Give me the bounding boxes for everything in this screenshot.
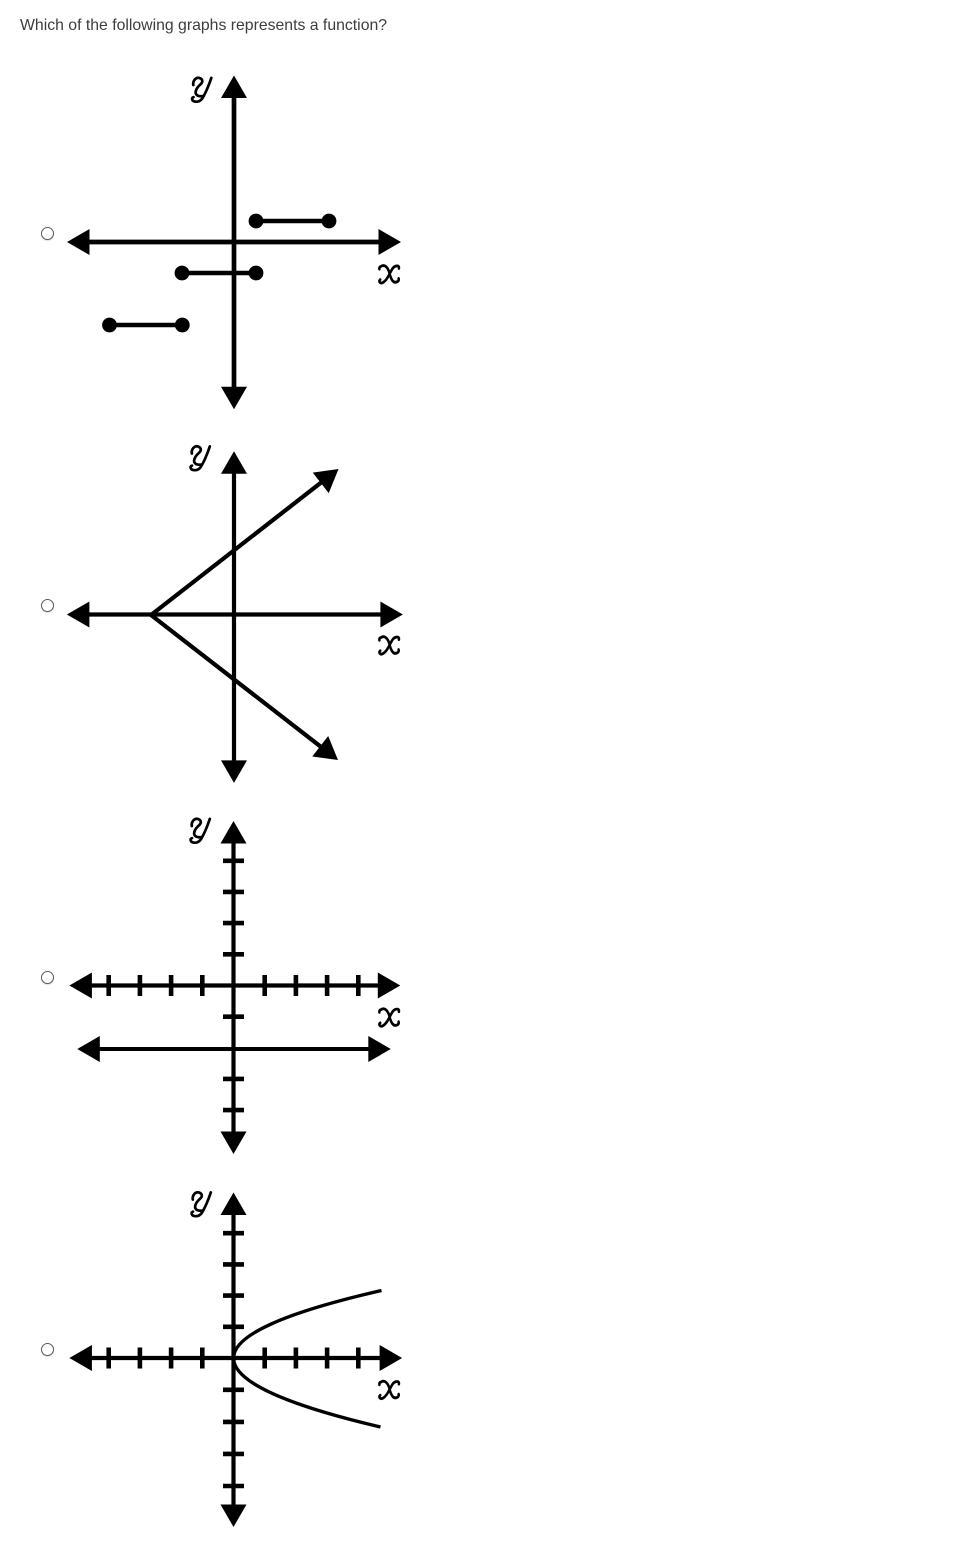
x-axis ticks g3: [109, 975, 359, 996]
step segment 2 (middle): [175, 266, 264, 281]
parabola upper branch: [234, 1291, 382, 1359]
step segment 1 (top right): [249, 214, 337, 229]
y-axis down arrowhead g3: [221, 1132, 247, 1155]
x-axis line g4: [89, 1356, 383, 1360]
y-axis up arrowhead g3: [221, 821, 247, 844]
x-axis right arrowhead g4: [380, 1345, 403, 1371]
question text: [20, 16, 387, 35]
y label g3: [191, 819, 210, 843]
x-axis left arrowhead g1: [67, 229, 90, 255]
x-axis left arrowhead g2: [67, 602, 90, 628]
V lower ray: [151, 615, 322, 748]
y-axis up arrowhead g2: [221, 451, 247, 474]
x label g1: [379, 266, 399, 283]
y-axis ticks g4: [223, 1233, 244, 1486]
radio option 3: [41, 971, 54, 984]
radio option 4: [41, 1343, 54, 1356]
x label g4: [379, 1381, 399, 1398]
x-axis right arrowhead g2: [380, 602, 403, 628]
x-axis line g1: [86, 240, 382, 245]
radio option 1: [41, 227, 54, 240]
y-axis up arrowhead g1: [221, 76, 247, 99]
x-axis right arrowhead g3: [378, 973, 401, 999]
y-axis line g4: [231, 1211, 235, 1508]
y-axis line g3: [231, 840, 235, 1135]
y-axis line g1: [232, 94, 237, 390]
x-axis ticks g4: [109, 1348, 359, 1369]
x-axis right arrowhead g1: [379, 229, 402, 255]
x-axis line g3: [89, 983, 381, 987]
y-axis down arrowhead g2: [221, 760, 247, 783]
y-axis down arrowhead g4: [221, 1505, 247, 1528]
parabola lower branch: [234, 1358, 381, 1427]
y-axis down arrowhead g1: [221, 387, 247, 410]
second horizontal line g3: [77, 1036, 391, 1062]
y-axis ticks g3: [223, 861, 244, 1110]
y-axis up arrowhead g4: [221, 1193, 247, 1216]
x-axis left arrowhead g3: [69, 973, 92, 999]
radio option 2: [41, 599, 54, 612]
step segment 3 (bottom left): [102, 318, 190, 333]
y-axis line g2: [232, 470, 236, 764]
y label g2: [191, 446, 210, 470]
x label g3: [379, 1009, 399, 1026]
x-axis left arrowhead g4: [69, 1345, 92, 1371]
x label g2: [379, 637, 399, 654]
y label g4: [192, 1192, 211, 1216]
V upper ray: [151, 481, 323, 615]
y label g1: [192, 78, 211, 102]
x-axis line g2: [86, 612, 384, 616]
